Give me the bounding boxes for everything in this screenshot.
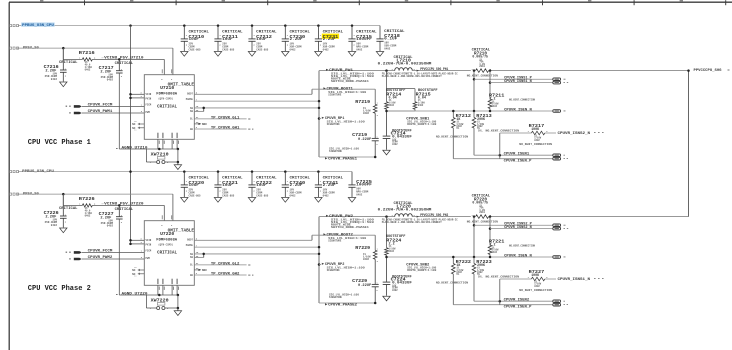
svg-text:100K: 100K <box>531 127 539 131</box>
svg-text:NO_KENT_CONNECTION: NO_KENT_CONNECTION <box>467 221 499 224</box>
svg-text:CRITICAL: CRITICAL <box>59 207 78 211</box>
svg-text:TP_CPUVR_GH1: TP_CPUVR_GH1 <box>211 127 240 131</box>
svg-text:FCCM: FCCM <box>146 249 152 252</box>
svg-text:(QFN-CSMD): (QFN-CSMD) <box>158 242 173 246</box>
svg-text:CRITICAL: CRITICAL <box>290 31 311 35</box>
svg-text:CPUVR_FCCM: CPUVR_FCCM <box>88 250 113 254</box>
svg-text:SWITCH_NODE-PHASE1: SWITCH_NODE-PHASE1 <box>331 80 369 83</box>
svg-text:CPUVR_PWM2: CPUVR_PWM2 <box>88 256 113 260</box>
svg-text:CPUVR_ISEN_N: CPUVR_ISEN_N <box>504 108 532 112</box>
svg-text:PPVCCCPU_S0G: PPVCCCPU_S0G <box>694 69 722 73</box>
svg-text:NO_KENT_CONNECTION: NO_KENT_CONNECTION <box>436 281 469 284</box>
svg-text:0.22UH-7UA-0.00235OHM: 0.22UH-7UA-0.00235OHM <box>378 62 432 66</box>
svg-text:CPUVR_ISNS2_N: CPUVR_ISNS2_N <box>504 226 532 230</box>
svg-text:CPUVR_PHASE2: CPUVR_PHASE2 <box>328 304 358 308</box>
svg-text:FDMF6808A: FDMF6808A <box>156 92 177 96</box>
svg-text:CPUVR_ISNS2_N: CPUVR_ISNS2_N <box>558 132 591 136</box>
svg-text:AGND_U7220: AGND_U7220 <box>122 292 149 296</box>
svg-text:CPUVR_PWM1: CPUVR_PWM1 <box>88 110 113 114</box>
svg-text:CASE-805: CASE-805 <box>189 48 202 51</box>
svg-text:PPBUS_G3N_CPU: PPBUS_G3N_CPU <box>22 24 54 28</box>
svg-text:100K: 100K <box>531 273 539 277</box>
svg-text:CRITICAL: CRITICAL <box>356 31 377 35</box>
svg-text:PWM: PWM <box>146 257 151 260</box>
svg-text:FCCM: FCCM <box>146 103 152 106</box>
svg-text:0402: 0402 <box>534 285 540 288</box>
svg-text:0402: 0402 <box>290 48 297 51</box>
svg-text:0402: 0402 <box>418 104 424 107</box>
svg-text:CPUVR_ISEN1: CPUVR_ISEN1 <box>504 153 530 157</box>
svg-text:CRITICAL: CRITICAL <box>256 177 277 181</box>
svg-text:2010: 2010 <box>479 65 485 68</box>
svg-text:CRITICAL: CRITICAL <box>222 177 243 181</box>
svg-text:CRITICAL: CRITICAL <box>59 61 78 65</box>
svg-text:←VCIN8_P5V_U7220: ←VCIN8_P5V_U7220 <box>102 203 144 207</box>
svg-text:0.22UF: 0.22UF <box>358 284 371 288</box>
svg-text:CPU VCC Phase 2: CPU VCC Phase 2 <box>28 285 91 293</box>
svg-text:PP5V_S0: PP5V_S0 <box>23 192 40 196</box>
svg-text:0402: 0402 <box>492 105 498 108</box>
svg-text:BOOTSTUFF: BOOTSTUFF <box>386 88 406 92</box>
svg-text:AGND_U7210: AGND_U7210 <box>122 146 149 150</box>
svg-text:0.22UF: 0.22UF <box>358 138 371 142</box>
svg-text:←VCIN8_P5V_U7210: ←VCIN8_P5V_U7210 <box>102 57 144 61</box>
svg-text:R7229: R7229 <box>355 245 370 251</box>
svg-text:PPBUS_G3N_CPU: PPBUS_G3N_CPU <box>22 170 54 174</box>
svg-text:CPUVR_ISEN_N: CPUVR_ISEN_N <box>504 254 532 258</box>
svg-text:PLACE-NEAR-L-AND-SENSE-RES-KEL: PLACE-NEAR-L-AND-SENSE-RES-KELVIN-CONNEC… <box>382 75 442 78</box>
svg-text:CRITICAL: CRITICAL <box>256 31 277 35</box>
svg-text:0402: 0402 <box>85 69 91 72</box>
svg-text:CPUVR_PHASE1: CPUVR_PHASE1 <box>328 158 358 162</box>
svg-text:TP_CPUVR_GH2: TP_CPUVR_GH2 <box>211 273 240 277</box>
svg-text:0402: 0402 <box>534 139 540 142</box>
svg-text:NO_KENT_CONNECTION: NO_KENT_CONNECTION <box>519 143 552 146</box>
svg-text:0402: 0402 <box>392 289 398 292</box>
svg-text:0402: 0402 <box>51 224 58 227</box>
svg-text:0402: 0402 <box>389 104 395 107</box>
svg-text:CASE-805: CASE-805 <box>189 194 202 197</box>
svg-text:PP5V_S0: PP5V_S0 <box>23 46 40 50</box>
svg-text:0402: 0402 <box>384 47 391 50</box>
svg-text:CRITICAL: CRITICAL <box>157 251 177 255</box>
svg-text:CASE-805: CASE-805 <box>222 48 235 51</box>
svg-text:PLACE-NEAR-L-AND-SENSE-RES-KEL: PLACE-NEAR-L-AND-SENSE-RES-KELVIN-CONNEC… <box>382 221 442 224</box>
svg-text:CPU VCC Phase 1: CPU VCC Phase 1 <box>28 139 91 147</box>
svg-text:2010: 2010 <box>479 211 485 214</box>
svg-text:PVIN: PVIN <box>146 243 152 246</box>
svg-text:SIGNATURE: SIGNATURE <box>327 269 340 272</box>
svg-text:(QFN-CSMD): (QFN-CSMD) <box>158 96 173 100</box>
svg-text:CASE-805: CASE-805 <box>256 48 269 51</box>
svg-text:R7216: R7216 <box>79 50 95 56</box>
svg-text:TP_CPUVR_GL1: TP_CPUVR_GL1 <box>211 117 240 121</box>
svg-text:BOOT: BOOT <box>187 93 193 96</box>
svg-text:0402: 0402 <box>356 48 363 51</box>
svg-text:5%. NO_KENT_CONNECTION: 5%. NO_KENT_CONNECTION <box>478 275 520 278</box>
svg-text:VCIN: VCIN <box>146 93 152 96</box>
svg-text:PVIN: PVIN <box>146 97 152 100</box>
svg-text:CPUVR_ISEN_P: CPUVR_ISEN_P <box>504 305 532 309</box>
svg-text:NO_KENT_CONNECTION: NO_KENT_CONNECTION <box>467 75 499 78</box>
svg-text:0402: 0402 <box>389 250 395 253</box>
svg-text:0402: 0402 <box>323 48 330 51</box>
svg-text:NOC: NOC <box>202 269 207 272</box>
svg-text:PWM: PWM <box>146 111 151 114</box>
svg-text:ROUTE_SHORT=1:100: ROUTE_SHORT=1:100 <box>407 123 436 126</box>
svg-text:CRITICAL: CRITICAL <box>323 177 344 181</box>
svg-text:0402: 0402 <box>51 78 58 81</box>
svg-text:CRITICAL: CRITICAL <box>290 177 311 181</box>
svg-text:SIGNATURE: SIGNATURE <box>329 296 342 299</box>
svg-text:5%. NO_KENT_CONNECTION: 5%. NO_KENT_CONNECTION <box>478 129 520 132</box>
svg-text:BOOTSTUFF: BOOTSTUFF <box>386 234 406 238</box>
svg-text:CPUVR_ISNS1_N: CPUVR_ISNS1_N <box>558 278 591 282</box>
svg-text:0402: 0402 <box>107 225 114 228</box>
svg-text:SIGNATURE: SIGNATURE <box>327 123 340 126</box>
svg-text:0402: 0402 <box>85 215 91 218</box>
svg-text:CASE-805: CASE-805 <box>222 194 235 197</box>
svg-text:R7219: R7219 <box>355 99 370 105</box>
svg-text:SIGNATURE: SIGNATURE <box>328 240 341 243</box>
svg-text:0402: 0402 <box>323 194 330 197</box>
svg-text:SWITCH_NODE-PHASE1: SWITCH_NODE-PHASE1 <box>331 226 369 229</box>
svg-text:U7210: U7210 <box>160 86 175 91</box>
svg-text:VCIN: VCIN <box>146 239 152 242</box>
svg-text:CRITICAL: CRITICAL <box>222 31 243 35</box>
svg-text:0402: 0402 <box>392 143 398 146</box>
svg-text:0402: 0402 <box>107 79 114 82</box>
svg-text:PHASE: PHASE <box>186 244 194 247</box>
svg-text:SIGNATURE: SIGNATURE <box>329 150 342 153</box>
svg-text:CRITICAL: CRITICAL <box>115 208 134 212</box>
svg-text:NO_KENT_CONNECTION: NO_KENT_CONNECTION <box>509 98 536 101</box>
svg-text:0402: 0402 <box>363 112 370 115</box>
svg-text:TP_CPUVR_GL2: TP_CPUVR_GL2 <box>211 263 240 267</box>
svg-text:NC: NC <box>132 269 136 272</box>
svg-text:0402: 0402 <box>363 258 370 261</box>
svg-text:0402: 0402 <box>356 193 363 196</box>
svg-text:CRITICAL: CRITICAL <box>115 62 134 66</box>
svg-text:0402: 0402 <box>290 194 297 197</box>
svg-text:U7220: U7220 <box>160 232 175 237</box>
svg-text:ROUTE_SHORT=1:100: ROUTE_SHORT=1:100 <box>407 269 436 272</box>
svg-text:CRITICAL: CRITICAL <box>157 105 177 109</box>
svg-text:CPUVR_ISNS1_N: CPUVR_ISNS1_N <box>504 80 532 84</box>
svg-text:SIGNATURE: SIGNATURE <box>328 94 341 97</box>
svg-text:CPUVR_ISEN_P: CPUVR_ISEN_P <box>504 159 532 163</box>
svg-text:NO_KENT_CONNECTION: NO_KENT_CONNECTION <box>519 289 552 292</box>
svg-text:NOC: NOC <box>202 123 207 126</box>
svg-text:PPVCCCPU_S0G_PH1: PPVCCCPU_S0G_PH1 <box>420 68 448 72</box>
svg-text:CPUVR_FCCM: CPUVR_FCCM <box>88 104 113 108</box>
svg-text:PHASE: PHASE <box>186 98 194 101</box>
svg-text:NC: NC <box>132 123 136 126</box>
svg-text:FDMF6808A: FDMF6808A <box>156 238 177 242</box>
svg-text:CASE-805: CASE-805 <box>256 194 269 197</box>
svg-text:0402: 0402 <box>492 251 498 254</box>
svg-text:BOOTSTUFF: BOOTSTUFF <box>418 88 438 92</box>
svg-text:CPUVR_ISEN2: CPUVR_ISEN2 <box>504 299 530 303</box>
svg-text:NO_KENT_CONNECTION: NO_KENT_CONNECTION <box>436 135 469 138</box>
svg-text:BOOT: BOOT <box>187 239 193 242</box>
svg-text:CRITICAL: CRITICAL <box>189 177 210 181</box>
svg-text:CRITICAL: CRITICAL <box>189 31 210 35</box>
svg-text:PPVCCCPU_S0G_PH2: PPVCCCPU_S0G_PH2 <box>420 214 448 218</box>
svg-text:0.22UH-7UA-0.00235OHM: 0.22UH-7UA-0.00235OHM <box>378 208 432 212</box>
svg-text:NO_KENT_CONNECTION: NO_KENT_CONNECTION <box>509 244 536 247</box>
svg-text:R7226: R7226 <box>79 196 95 202</box>
